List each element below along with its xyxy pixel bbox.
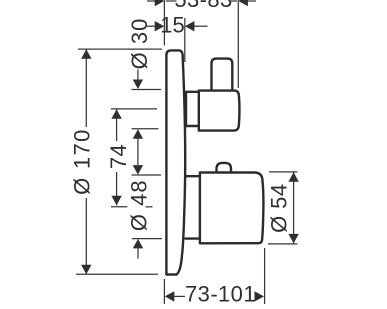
svg-text:Ø 54: Ø 54 xyxy=(267,184,292,233)
svg-text:53-83: 53-83 xyxy=(174,0,232,12)
svg-text:15: 15 xyxy=(160,13,184,38)
dim Ø170 top extension line xyxy=(78,48,162,50)
dim 74 vertical line (broken for text) xyxy=(116,109,118,141)
arrow 53-83 left (points right, cut at top) xyxy=(155,0,165,6)
arrow 73-101 right (points right at knob front line) xyxy=(255,291,265,301)
arrow O30 bottom (points up at handle bottom line) xyxy=(133,129,143,139)
knob front extension line (dim 73-101) xyxy=(264,248,266,304)
arrow O170 top (points up) xyxy=(81,49,91,59)
arrow 74 bottom (points down) xyxy=(111,196,121,206)
dim Ø48 extension lines (sleeve dia) xyxy=(132,174,162,176)
plate front extension line (dim 15) xyxy=(184,18,186,62)
dim 15 line tails xyxy=(146,25,155,27)
arrow O30 top (points down at handle top line) xyxy=(133,80,143,90)
dim Ø170 vertical line (broken for text) xyxy=(85,49,87,127)
arrow O48 bottom (points up at sleeve bottom line) xyxy=(133,239,143,249)
lower sleeve bottom edge xyxy=(186,237,200,239)
dim 74 bottom extension line xyxy=(111,206,127,208)
arrow 15 right (points left) xyxy=(185,21,195,31)
wall plane extension line (top segment) xyxy=(163,0,165,46)
arrow 73-101 left (points left at wall line) xyxy=(165,291,175,301)
arrow O54 top (points up) xyxy=(288,172,298,182)
svg-text:Ø 30: Ø 30 xyxy=(127,18,152,70)
lower sleeve top edge xyxy=(186,175,200,177)
dim Ø170 bottom extension line xyxy=(76,273,158,275)
dim 74 top extension line xyxy=(111,108,157,110)
thermostat knob xyxy=(200,173,264,244)
svg-text:73-101: 73-101 xyxy=(185,282,256,307)
arrow 15 left (points right) xyxy=(155,21,165,31)
svg-text:Ø 48: Ø 48 xyxy=(127,179,152,231)
upper handle body xyxy=(199,91,240,131)
svg-text:Ø 170: Ø 170 xyxy=(70,128,95,194)
dim Ø30 leader tail xyxy=(137,70,139,81)
arrow O48 top (points down at sleeve top line) xyxy=(133,165,143,175)
upper handle stem xyxy=(212,59,233,90)
handle front extension line (dim 53-83) xyxy=(237,0,239,88)
dim Ø30 extension lines (handle dia) xyxy=(132,89,162,91)
wall plane extension line (bottom segment) xyxy=(163,279,165,304)
arrow O170 bottom (points down) xyxy=(81,265,91,275)
upper handle connector hub xyxy=(186,92,199,126)
arrow O54 bottom (points down) xyxy=(288,234,298,244)
thermostat knob button xyxy=(217,163,232,172)
arrow 53-83 right (points left, cut at top) xyxy=(238,0,248,6)
dim Ø54 extension lines (knob dia) xyxy=(269,171,298,173)
shared arrow shaft between Ø30 and Ø48 xyxy=(137,138,139,165)
dim 53-83 line fragments xyxy=(147,0,156,2)
dim Ø54 vertical line xyxy=(293,172,295,243)
wall plate (escutcheon, side profile) xyxy=(166,50,185,274)
arrow 74 top (points up) xyxy=(111,109,121,119)
dim 73-101 line tails xyxy=(174,295,185,297)
svg-text:74: 74 xyxy=(106,144,131,169)
dim Ø48 bottom leader tail xyxy=(137,248,139,259)
